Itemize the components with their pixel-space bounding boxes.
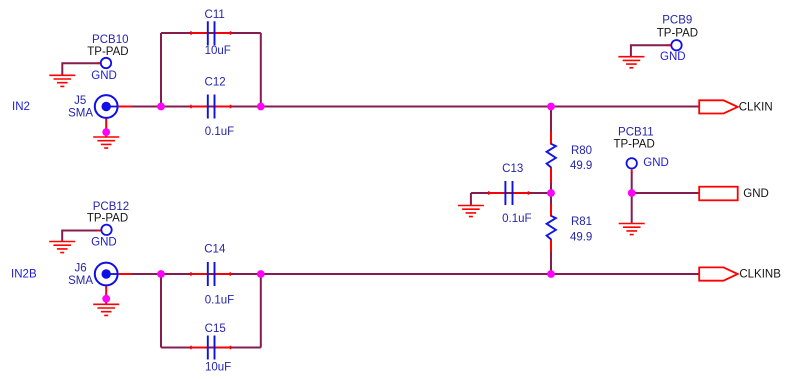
capacitor C13 — [505, 181, 512, 205]
junction node PCB11 — [628, 189, 636, 197]
junction node top-right — [257, 103, 265, 111]
connector J6 SMA — [95, 263, 118, 286]
capacitor C12 — [208, 95, 215, 119]
capacitor C15 pins — [191, 346, 231, 350]
port CLKINB — [699, 267, 738, 280]
capacitor C13 pins — [489, 191, 529, 195]
svg-text:C12: C12 — [205, 76, 226, 88]
svg-text:0.1uF: 0.1uF — [205, 294, 234, 306]
junction node top-left — [157, 103, 165, 111]
port GND — [699, 187, 738, 201]
svg-text:10uF: 10uF — [205, 362, 231, 374]
svg-text:PCB9: PCB9 — [662, 14, 692, 26]
capacitor C12 pins — [191, 105, 231, 109]
svg-text:GND: GND — [91, 237, 117, 249]
resistor R81 pins — [550, 204, 552, 252]
wire PCB9 to ground — [631, 45, 670, 57]
wire PCB12 to ground — [62, 231, 100, 242]
svg-text:TP-PAD: TP-PAD — [613, 139, 654, 151]
testpad PCB9 circle — [671, 40, 681, 50]
wire bottom main IN2B to CLKINB — [132, 273, 699, 275]
testpad PCB12 pin — [97, 230, 100, 232]
wire C15 branch right vertical — [260, 274, 262, 348]
wire resistor chain vertical lower — [550, 251, 552, 274]
testpad PCB9 pin — [667, 44, 670, 46]
testpad PCB10 circle — [101, 58, 111, 68]
junction node top R chain — [547, 103, 555, 111]
resistor R80 pins — [550, 132, 552, 184]
wire resistor chain vertical upper — [550, 107, 552, 134]
wire PCB11 junction to GND port — [632, 192, 700, 194]
wire C13 horizontal to junction — [471, 192, 551, 194]
svg-text:GND: GND — [743, 188, 769, 200]
junction node J6 ground — [102, 295, 110, 303]
svg-text:SMA: SMA — [68, 108, 93, 120]
ground PCB11 — [619, 224, 645, 235]
wire C13 ground drop — [470, 193, 472, 206]
svg-text:SMA: SMA — [68, 275, 93, 287]
testpad PCB11 pin — [631, 169, 633, 172]
svg-text:J5: J5 — [74, 95, 86, 107]
svg-text:C11: C11 — [205, 9, 225, 21]
wire C11 branch top horizontal — [161, 32, 261, 34]
resistor R80 — [547, 144, 556, 168]
wire resistor chain vertical between R80 and R81 — [550, 182, 552, 205]
junction node J5 ground — [102, 128, 110, 136]
svg-text:IN2B: IN2B — [11, 269, 37, 281]
svg-text:0.1uF: 0.1uF — [502, 213, 531, 225]
svg-text:C15: C15 — [205, 323, 226, 335]
wire J6 ground drop — [105, 295, 107, 304]
ground J6 — [93, 304, 119, 315]
junction node bottom-right — [257, 270, 265, 278]
svg-text:49.9: 49.9 — [570, 160, 592, 172]
junction node mid R chain — [547, 189, 555, 197]
wire C15 branch bottom horizontal — [161, 347, 261, 349]
wire C11 branch left vertical — [160, 33, 162, 107]
wire PCB11 vertical to ground — [631, 172, 633, 224]
resistor R81 — [547, 216, 556, 240]
capacitor C14 — [208, 262, 215, 286]
connector J6 pins — [106, 274, 132, 300]
connector J5 SMA — [95, 95, 118, 118]
svg-text:C14: C14 — [204, 244, 226, 256]
svg-text:PCB10: PCB10 — [92, 34, 128, 46]
ground C13 — [458, 206, 484, 217]
testpad PCB11 circle — [627, 158, 637, 168]
port CLKIN — [699, 100, 738, 113]
svg-text:R80: R80 — [571, 145, 592, 157]
svg-text:49.9: 49.9 — [570, 231, 592, 243]
wire top main IN2 to CLKIN — [132, 106, 699, 108]
capacitor C14 pins — [191, 272, 230, 276]
ground J5 — [93, 137, 119, 148]
testpad PCB10 pin — [97, 62, 100, 64]
svg-text:R81: R81 — [571, 216, 592, 228]
wire J5 ground drop — [105, 128, 107, 137]
svg-text:PCB11: PCB11 — [618, 126, 654, 138]
ground PCB10 — [49, 75, 75, 86]
testpad PCB12 circle — [101, 225, 111, 235]
wire PCB10 to ground — [62, 63, 100, 75]
wire C15 branch left vertical — [160, 274, 162, 348]
svg-text:10uF: 10uF — [205, 45, 231, 57]
svg-text:GND: GND — [91, 70, 117, 82]
svg-text:0.1uF: 0.1uF — [205, 126, 234, 138]
ground PCB12 — [49, 242, 75, 253]
svg-text:J6: J6 — [75, 263, 87, 275]
junction node bottom R chain — [547, 270, 555, 278]
svg-text:CLKINB: CLKINB — [739, 269, 781, 281]
svg-text:GND: GND — [643, 157, 669, 169]
svg-text:C13: C13 — [502, 163, 523, 175]
svg-text:TP-PAD: TP-PAD — [657, 27, 698, 39]
svg-text:IN2: IN2 — [12, 101, 30, 113]
capacitor C11 pins — [191, 31, 231, 35]
ground PCB9 — [618, 57, 644, 68]
capacitor C11 — [208, 21, 215, 45]
wire C11 branch right vertical — [260, 33, 262, 107]
svg-text:TP-PAD: TP-PAD — [87, 46, 128, 58]
svg-text:GND: GND — [660, 51, 686, 63]
junction node bottom-left — [157, 270, 165, 278]
capacitor C15 — [208, 336, 215, 360]
svg-text:CLKIN: CLKIN — [739, 101, 773, 113]
svg-text:TP-PAD: TP-PAD — [87, 213, 128, 225]
svg-text:PCB12: PCB12 — [93, 201, 129, 213]
connector J5 pins — [106, 107, 132, 134]
